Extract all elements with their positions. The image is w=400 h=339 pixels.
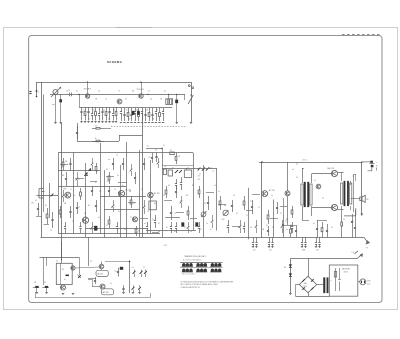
svg-text:F: F — [331, 281, 332, 283]
svg-text:R2: R2 — [156, 110, 158, 112]
svg-text:24: 24 — [150, 99, 152, 101]
svg-text:TR 2 AF 9: TR 2 AF 9 — [137, 88, 145, 91]
svg-text:AC 125: AC 125 — [154, 192, 160, 195]
svg-text:nnn: nnn — [52, 104, 55, 106]
svg-text:Cn: Cn — [118, 211, 120, 213]
svg-text:22: 22 — [50, 230, 52, 232]
svg-text:C4: C4 — [163, 195, 165, 197]
svg-text:72: 72 — [118, 91, 120, 93]
svg-text:kk: kk — [95, 138, 97, 140]
svg-text:11: 11 — [352, 221, 354, 223]
svg-text:Cn: Cn — [132, 267, 134, 269]
svg-text:k4: k4 — [111, 207, 113, 209]
svg-text:2n: 2n — [152, 219, 154, 221]
svg-text:kn: kn — [61, 167, 63, 169]
svg-text:21: 21 — [78, 179, 80, 181]
svg-text:71: 71 — [285, 221, 287, 223]
svg-text:n7: n7 — [70, 189, 72, 191]
svg-text:2k: 2k — [45, 205, 47, 207]
svg-text:41: 41 — [133, 203, 135, 205]
svg-text:71: 71 — [246, 215, 248, 217]
svg-text:47: 47 — [106, 225, 108, 227]
svg-text:e b c C 1 2 3 e b c 2: e b c C 1 2 3 e b c 2 — [182, 273, 196, 275]
svg-text:R1: R1 — [107, 181, 109, 183]
svg-text:C7: C7 — [143, 267, 145, 269]
svg-text:TRANSISTOR EQ. AF 9 AC 1: TRANSISTOR EQ. AF 9 AC 1 — [184, 255, 206, 258]
svg-text:4k: 4k — [88, 119, 90, 121]
svg-text:R1: R1 — [62, 269, 64, 271]
svg-text:k4: k4 — [35, 200, 37, 202]
svg-text:AC 132: AC 132 — [103, 291, 109, 294]
svg-text:VOL: VOL — [198, 179, 201, 181]
svg-text:42: 42 — [44, 282, 46, 284]
svg-text:C1: C1 — [141, 189, 143, 191]
svg-text:k2: k2 — [187, 168, 189, 170]
svg-text:14: 14 — [233, 195, 235, 197]
svg-text:474: 474 — [316, 250, 319, 252]
svg-text:42: 42 — [266, 225, 268, 227]
svg-text:R7: R7 — [192, 185, 194, 187]
svg-text:1k: 1k — [236, 213, 238, 215]
svg-text:2n: 2n — [213, 171, 215, 173]
svg-text:Ck: Ck — [73, 195, 75, 197]
svg-text:AC 132: AC 132 — [98, 273, 104, 276]
svg-text:C4: C4 — [190, 231, 192, 233]
svg-text:SECTEUR: SECTEUR — [342, 269, 351, 271]
svg-text:nn: nn — [226, 227, 228, 229]
svg-text:Rn: Rn — [284, 267, 286, 269]
svg-text:2n: 2n — [110, 283, 112, 285]
svg-text:41: 41 — [103, 110, 105, 112]
svg-text:7n: 7n — [206, 223, 208, 225]
svg-text:50c/s: 50c/s — [367, 283, 371, 285]
svg-text:kn: kn — [122, 185, 124, 187]
svg-text:kk: kk — [165, 166, 167, 168]
svg-text:Cn: Cn — [66, 91, 68, 93]
svg-text:kn: kn — [64, 279, 66, 281]
svg-text:a TC b: a TC b — [302, 160, 307, 162]
svg-text:21: 21 — [68, 90, 70, 92]
svg-text:kk: kk — [166, 227, 168, 229]
svg-text:47: 47 — [170, 150, 172, 152]
svg-text:41: 41 — [56, 261, 58, 263]
svg-text:n4: n4 — [292, 169, 294, 171]
svg-text:72: 72 — [322, 198, 324, 200]
svg-text:22: 22 — [174, 213, 176, 215]
svg-text:kn7: kn7 — [253, 250, 256, 252]
svg-text:22: 22 — [180, 201, 182, 203]
svg-text:C2: C2 — [90, 261, 92, 263]
svg-text:n2: n2 — [214, 185, 216, 187]
svg-text:C7: C7 — [258, 207, 260, 209]
svg-text:74: 74 — [147, 211, 149, 213]
svg-text:kn: kn — [126, 110, 128, 112]
svg-text:12: 12 — [78, 207, 80, 209]
svg-text:4k: 4k — [204, 203, 206, 205]
svg-text:b1: b1 — [314, 180, 316, 182]
svg-text:17: 17 — [96, 171, 98, 173]
svg-text:11: 11 — [250, 201, 252, 203]
svg-text:Cn: Cn — [343, 219, 345, 221]
svg-text:n7: n7 — [313, 223, 315, 225]
svg-text:nn: nn — [286, 229, 288, 231]
svg-text:42: 42 — [106, 169, 108, 171]
svg-text:n1: n1 — [83, 110, 85, 112]
svg-text:k2: k2 — [296, 164, 298, 166]
svg-text:2n: 2n — [117, 175, 119, 177]
svg-text:C4: C4 — [98, 91, 100, 93]
svg-text:9v: 9v — [376, 166, 378, 168]
svg-text:SCHEMA: SCHEMA — [107, 60, 123, 64]
svg-text:nn: nn — [108, 159, 110, 161]
svg-text:kn: kn — [210, 229, 212, 231]
svg-text:AC 125: AC 125 — [269, 189, 275, 192]
svg-text:2k: 2k — [296, 177, 298, 179]
svg-text:k7: k7 — [200, 229, 202, 231]
svg-text:41: 41 — [331, 227, 333, 229]
svg-text:C4: C4 — [155, 150, 157, 152]
svg-text:R4: R4 — [198, 176, 200, 178]
svg-text:27: 27 — [116, 155, 118, 157]
svg-text:Cn: Cn — [93, 110, 95, 112]
svg-text:Ck: Ck — [172, 168, 174, 170]
svg-text:R2: R2 — [128, 119, 130, 121]
svg-text:22: 22 — [280, 213, 282, 215]
svg-text:nk: nk — [95, 126, 97, 128]
svg-text:21: 21 — [199, 174, 201, 176]
svg-text:12: 12 — [163, 145, 165, 147]
svg-text:a: a — [38, 92, 39, 94]
svg-text:C2: C2 — [149, 157, 151, 159]
svg-text:17: 17 — [130, 217, 132, 219]
svg-text:B30: B30 — [304, 283, 307, 285]
svg-text:1n: 1n — [271, 195, 273, 197]
svg-text:C350: C350 — [303, 286, 307, 288]
svg-text:4k: 4k — [76, 91, 78, 93]
svg-text:n7: n7 — [105, 99, 107, 101]
svg-text:n2: n2 — [125, 99, 127, 101]
svg-text:1n: 1n — [218, 191, 220, 193]
svg-text:74: 74 — [72, 221, 74, 223]
